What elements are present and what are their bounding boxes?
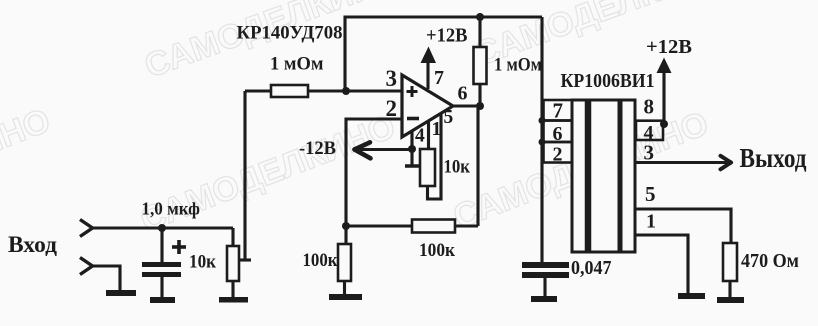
wire: trimmer 10k bottom link to pin5: [428, 115, 442, 200]
resistor 1 мОм (left, horizontal): [271, 85, 308, 97]
wire: op-amp pin6 output wire: [453, 104, 480, 107]
wire: op-amp pin3 input wire: [245, 89, 402, 92]
ground under lower connector: [106, 290, 136, 296]
IC pin 7 box: [544, 100, 573, 121]
watermark САМОДЕЛКИНО tiles: [0, 0, 736, 239]
IC U2 КР1006ВИ1 body: [572, 100, 635, 252]
output arrow head (open): [721, 156, 732, 170]
svg-text:7: 7: [434, 67, 444, 89]
svg-text:10к: 10к: [444, 157, 471, 178]
IC pin 4 box: [636, 121, 663, 140]
wire: corner down into pot R 10k: [231, 228, 234, 246]
wire: pin5 wire to 470 Ohm: [636, 209, 731, 243]
svg-text:8: 8: [644, 95, 655, 119]
wire: vertical from 1 mOhm left lead down to pot wiper: [243, 91, 246, 260]
junction node: pin8/pin4 supply: [660, 120, 668, 128]
svg-text:2: 2: [553, 144, 563, 166]
resistor 470 Ом: [723, 243, 737, 281]
svg-text:Вход: Вход: [8, 232, 57, 258]
resistor 100к (horizontal feedback): [412, 220, 455, 233]
wire: pot bottom lead to ground: [231, 281, 234, 297]
wire: -12V arrow shaft: [360, 148, 412, 151]
ground under pot 10к: [219, 297, 248, 303]
ground under 470 Ом: [717, 297, 744, 303]
trimmer 10к wiper tap bar: [405, 164, 420, 168]
svg-text:5: 5: [645, 182, 656, 206]
input connector lower: [80, 258, 93, 275]
+12V arrow (op-amp pin7): [421, 47, 437, 64]
-12V arrow head (open): [355, 142, 371, 158]
wire: op-amp pin4 lead: [410, 131, 413, 166]
potentiometer 10к (input): [227, 246, 239, 281]
junction node: IC bus pin6: [539, 117, 546, 124]
svg-text:4: 4: [415, 126, 425, 147]
capacitor 0,047 plates: [522, 262, 569, 268]
svg-text:КР1006ВИ1: КР1006ВИ1: [561, 71, 655, 92]
trimmer 10к (offset null): [420, 149, 435, 186]
wire: IC left bus down to cap 0,047: [540, 17, 543, 262]
resistor 100к (vertical): [338, 244, 351, 281]
svg-text:0,047: 0,047: [571, 258, 612, 279]
svg-text:2: 2: [386, 96, 398, 121]
wire: trimmer 10k top lead (pin1): [427, 122, 430, 149]
wire: op-amp pin2 wire and drop to feedback node: [346, 119, 402, 226]
wire: pin1 wire to ground: [636, 235, 688, 293]
junction node: top bus / right 1 mOhm: [476, 13, 484, 21]
svg-text:6: 6: [458, 83, 468, 105]
capacitor C1 1,0 мкф plates: [142, 262, 181, 267]
wire: right 1 mOhm bottom lead: [478, 84, 481, 106]
svg-text:100к: 100к: [419, 241, 455, 261]
wire: op-amp pin7 supply lead: [426, 60, 429, 89]
+12V arrow (IC pin8): [657, 58, 672, 74]
svg-text:1: 1: [646, 211, 656, 233]
junction node: op-amp output: [476, 102, 484, 110]
svg-text:5: 5: [444, 107, 454, 128]
wire: 470 Ohm bottom lead: [728, 281, 731, 297]
svg-text:7: 7: [553, 99, 564, 123]
svg-text:1: 1: [432, 118, 442, 140]
resistor 1 мОм (right, vertical): [474, 47, 487, 84]
svg-text:6: 6: [553, 123, 563, 145]
svg-text:+12В: +12В: [646, 36, 692, 58]
junction node: +input / 1 mOhm: [342, 87, 350, 95]
wire: cap 0,047 bottom lead: [543, 278, 546, 296]
ground under pin1: [678, 293, 705, 299]
svg-text:100к: 100к: [303, 250, 338, 271]
wire: top bus from op-amp +input node to IC pins 7/6/2: [345, 15, 542, 18]
wire: output down to feedback resistor: [476, 106, 479, 226]
capacitor C1 polarity plus: [172, 240, 186, 254]
svg-text:1 мОм: 1 мОм: [270, 55, 324, 75]
svg-text:1,0 мкф: 1,0 мкф: [142, 199, 201, 219]
svg-text:1 мОм: 1 мОм: [494, 55, 542, 76]
wire: vertical drop from top bus to +input node: [343, 16, 346, 92]
junction node: IC bus pin2: [539, 139, 546, 146]
op-amp + input marking: [407, 86, 418, 97]
ground under 100к: [329, 294, 362, 300]
wire: input signal wire: [92, 226, 233, 229]
wire: feedback 100k horizontal run: [346, 224, 478, 227]
svg-text:Выход: Выход: [740, 142, 807, 173]
wire: right 1 mOhm top lead: [478, 17, 481, 47]
svg-text:3: 3: [644, 141, 655, 165]
IC pin 2 box: [544, 142, 573, 163]
IC inner column lines: [585, 100, 592, 252]
svg-text:3: 3: [386, 66, 398, 91]
op-amp - input marking: [407, 117, 419, 121]
svg-text:КР140УД708: КР140УД708: [237, 23, 343, 44]
wire: capacitor C1 top lead: [160, 228, 163, 262]
wire: lower input connector wire: [92, 266, 120, 290]
svg-text:470 Ом: 470 Ом: [741, 250, 799, 272]
wire: 100k vertical leads: [344, 226, 347, 244]
ground under cap 0,047: [531, 296, 557, 302]
svg-text:-12В: -12В: [299, 139, 336, 159]
ground under C1: [150, 297, 175, 303]
wire: pin8 supply lead: [662, 70, 665, 124]
svg-text:10к: 10к: [189, 252, 216, 273]
junction node: pin4 / -12V: [408, 145, 416, 153]
op-amp U1 КР140УД708 triangle: [402, 75, 453, 137]
input connector upper: [80, 220, 93, 237]
IC pin 6 box: [544, 121, 573, 143]
junction node: feedback / pin2: [342, 222, 350, 230]
wire: capacitor C1 bottom lead: [160, 277, 163, 297]
wire: pin3 output wire: [636, 161, 729, 164]
svg-text:+12В: +12В: [426, 26, 468, 47]
wire: pot wiper stub: [237, 258, 251, 261]
junction node: input / C1: [158, 224, 166, 232]
